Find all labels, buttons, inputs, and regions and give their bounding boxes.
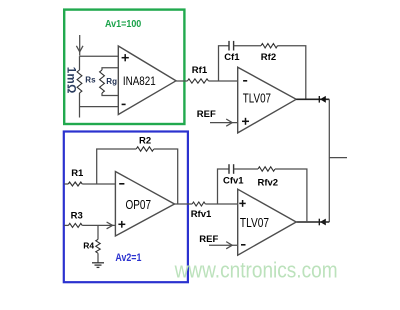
wire+resistor R3 into U3 plus — [64, 224, 68, 226]
resistor Rf2 — [261, 44, 278, 48]
wire: Rf2 to output node — [278, 46, 306, 100]
wire: Rfv2 to output node — [275, 169, 307, 222]
REF arrow into U4 - input — [209, 242, 237, 249]
wire: Rf1 to U2 inverting input — [209, 80, 238, 82]
wire: U2 output — [296, 98, 329, 100]
svg-text:TLV07: TLV07 — [240, 216, 269, 230]
svg-text:Rfv1: Rfv1 — [191, 209, 212, 220]
svg-text:INA821: INA821 — [123, 74, 156, 88]
U2 minus input mark — [243, 80, 247, 82]
svg-text:Rg: Rg — [106, 77, 117, 86]
wire: left vertical with stub — [79, 56, 81, 70]
wire: bottom input — [80, 106, 119, 108]
op-amp U1 INA821 — [118, 46, 176, 115]
wire: Cf1 to Rf2 — [234, 45, 261, 47]
svg-text:R4: R4 — [83, 240, 94, 250]
svg-text:R3: R3 — [71, 211, 83, 222]
op-amp U4 TLV07 — [238, 189, 297, 255]
U1 plus input mark — [122, 54, 129, 61]
U3 minus input mark — [119, 183, 124, 185]
buffer-stage box Av2 — [64, 132, 188, 283]
svg-text:Cfv1: Cfv1 — [223, 175, 244, 186]
U3 plus input mark — [118, 221, 125, 228]
op-amp U3 OP07 — [115, 172, 174, 237]
wire: U3 output to Rfv1 — [175, 203, 193, 205]
wire: feedback tap vertical — [219, 46, 230, 81]
svg-text:Av1=100: Av1=100 — [105, 18, 141, 30]
input current arrow — [76, 35, 83, 56]
U2 plus input mark — [242, 118, 249, 125]
svg-text:R2: R2 — [139, 135, 151, 146]
wire: feedback right — [154, 149, 178, 204]
wire: U4 output — [296, 221, 329, 223]
wire: U1 output to Rf1 — [176, 80, 187, 82]
U4 minus input mark — [241, 244, 246, 246]
output node arrow (bottom) — [318, 219, 320, 226]
svg-text:REF: REF — [197, 109, 216, 120]
gain-stage box Av1 — [64, 10, 184, 124]
svg-text:TLV07: TLV07 — [243, 91, 271, 105]
ground — [92, 263, 104, 268]
svg-text:Av2=1: Av2=1 — [115, 252, 141, 264]
wire: feedback left — [97, 149, 137, 184]
svg-text:Cf1: Cf1 — [224, 52, 240, 63]
wire: Rfv1 to U4 input — [205, 203, 237, 205]
wire: top input — [80, 55, 119, 57]
output node arrow (top) — [318, 96, 320, 103]
svg-text:Rs: Rs — [85, 75, 96, 84]
svg-text:REF: REF — [199, 234, 218, 245]
svg-text:1mΩ: 1mΩ — [65, 67, 77, 94]
resistor R4 vertical — [97, 225, 99, 239]
resistor Rfv1 — [192, 202, 205, 206]
wire: output stub — [329, 157, 347, 159]
wire+resistor R1 into U3 minus — [64, 183, 68, 185]
svg-text:www.cntronics.com: www.cntronics.com — [174, 257, 338, 282]
resistor Rg with gain-pin bracket — [102, 68, 118, 70]
U1 minus input mark — [122, 103, 126, 105]
capacitor Cf1 — [229, 41, 234, 51]
svg-text:Rf2: Rf2 — [261, 52, 276, 63]
U4 plus input mark — [239, 200, 245, 207]
svg-text:Rfv2: Rfv2 — [258, 177, 279, 188]
svg-text:OP07: OP07 — [126, 198, 152, 212]
resistor Rs — [77, 70, 82, 93]
resistor Rfv2 — [258, 167, 275, 171]
REF arrow into U2 + input — [210, 119, 237, 126]
svg-text:R1: R1 — [71, 168, 84, 179]
wire: Cfv1 to Rfv2 — [234, 168, 258, 170]
capacitor Cfv1 — [229, 164, 234, 174]
resistor R2 — [136, 147, 154, 151]
wire: output bus vertical — [328, 99, 330, 222]
resistor Rf1 — [187, 79, 208, 83]
arrow into U3 plus input — [107, 222, 113, 229]
svg-text:Rf1: Rf1 — [192, 65, 208, 76]
op-amp U2 TLV07 — [238, 67, 297, 133]
wire: feedback tap vertical (U4) — [218, 169, 230, 204]
